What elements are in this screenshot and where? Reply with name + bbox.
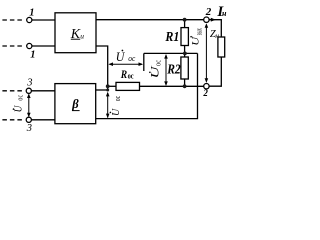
svg-text:U: U	[191, 35, 201, 45]
svg-text:U: U	[110, 108, 122, 116]
svg-text:2: 2	[205, 6, 212, 18]
svg-text:вых: вых	[194, 28, 204, 35]
svg-text:u: u	[80, 31, 84, 40]
svg-text:н: н	[215, 31, 219, 40]
svg-text:3: 3	[26, 123, 32, 134]
svg-text:2: 2	[202, 88, 208, 98]
svg-text:R2: R2	[166, 63, 180, 78]
svg-text:β: β	[71, 97, 79, 111]
svg-text:ос: ос	[128, 72, 134, 81]
svg-text:ос: ос	[128, 54, 135, 63]
svg-text:K: K	[70, 27, 81, 42]
svg-text:U: U	[150, 66, 162, 79]
svg-text:3: 3	[26, 78, 32, 89]
svg-text:ос: ос	[16, 94, 25, 100]
svg-text:U: U	[116, 49, 126, 64]
svg-text:R1: R1	[165, 29, 180, 44]
svg-text:1: 1	[29, 8, 34, 19]
svg-text:н: н	[222, 9, 227, 18]
svg-text:ос: ос	[113, 95, 122, 101]
svg-text:1: 1	[30, 50, 35, 61]
svg-text:ос: ос	[153, 60, 162, 66]
svg-text:R: R	[120, 67, 127, 81]
